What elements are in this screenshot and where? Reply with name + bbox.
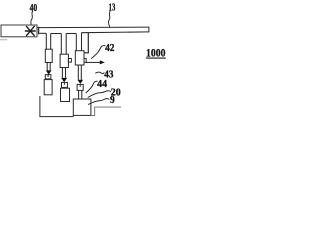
pipe into head box bbox=[79, 90, 82, 99]
leader 43 bbox=[95, 72, 104, 73]
svg-text:44: 44 bbox=[97, 79, 107, 90]
drop pipe 1 bbox=[46, 33, 50, 49]
pipe below pump 1 bbox=[47, 63, 50, 71]
pipe below pump 2 bbox=[62, 68, 65, 78]
manifold pipe top line bbox=[37, 26, 149, 29]
flange between box and pipe bbox=[38, 27, 40, 35]
small stray line bottom-left of box bbox=[0, 39, 7, 41]
flow arrow triangle 2 bbox=[61, 78, 67, 82]
pump rect 2 bbox=[60, 54, 68, 67]
svg-text:13: 13 bbox=[109, 1, 116, 13]
flow arrow triangle 3 bbox=[77, 80, 83, 84]
small valve box 3 bbox=[77, 84, 83, 90]
degasser box (left tank) bbox=[1, 25, 37, 37]
manifold pipe bottom line segments bbox=[39, 32, 149, 34]
pipe below pump 3 bbox=[78, 65, 81, 80]
valve symbol (asterisk) bbox=[25, 26, 35, 35]
side port on pump 3 bbox=[84, 59, 86, 63]
leader 40 bbox=[31, 11, 33, 25]
leader 13 bbox=[108, 11, 110, 27]
svg-text:9: 9 bbox=[110, 95, 115, 106]
pump rect 1 bbox=[45, 49, 52, 62]
small valve box 1 bbox=[45, 75, 51, 79]
svg-text:40: 40 bbox=[30, 2, 38, 13]
side port on pump 2 bbox=[68, 59, 71, 63]
manifold pipe right end cap bbox=[148, 27, 150, 33]
bypass elbow into pump 3 bbox=[84, 52, 89, 54]
bypass line from manifold bbox=[87, 33, 89, 53]
platen step right of head bbox=[91, 107, 122, 115]
leader 9 bbox=[88, 99, 109, 105]
leader 20 bbox=[88, 91, 111, 98]
drop pipe 2 bbox=[61, 34, 66, 55]
drop pipe 3 bbox=[76, 33, 81, 51]
sub tank 2 bbox=[61, 88, 70, 101]
pump rect 3 bbox=[75, 51, 84, 65]
small valve box 2 bbox=[62, 82, 68, 87]
leader 42 bbox=[91, 46, 105, 59]
svg-text:42: 42 bbox=[105, 43, 115, 54]
outflow arrow bbox=[86, 61, 100, 63]
sub tank 1 bbox=[44, 80, 52, 95]
leader 44 bbox=[86, 81, 98, 93]
head box 20 bbox=[73, 99, 91, 115]
flow arrow triangle 1 bbox=[46, 70, 52, 74]
carriage tray bbox=[40, 96, 73, 117]
